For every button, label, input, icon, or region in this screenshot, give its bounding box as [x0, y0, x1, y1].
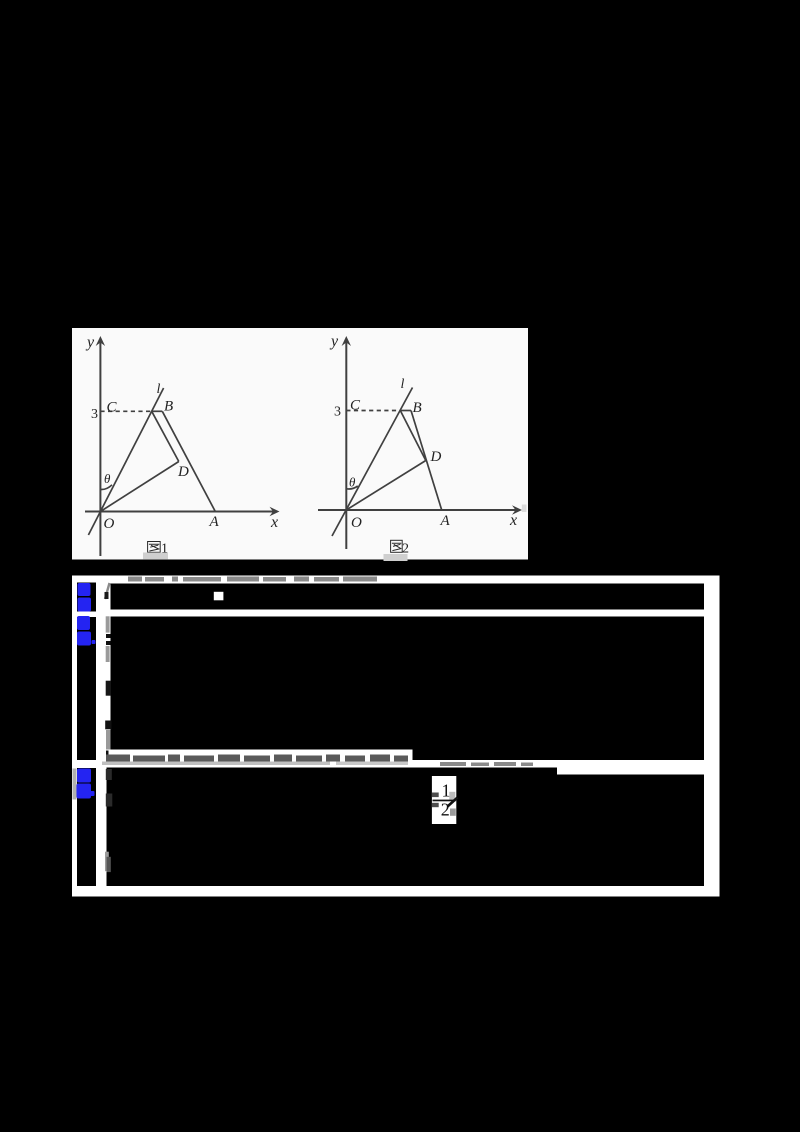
fraction bar [433, 800, 456, 802]
fraction gray squares [449, 792, 455, 800]
svg-text:θ: θ [349, 475, 356, 490]
row3 left cell black [77, 768, 96, 886]
row3 main cell black [107, 768, 705, 887]
row3 left edge fragments [105, 769, 112, 872]
svg-text:y: y [329, 333, 339, 350]
row2 bottom white strip under redaction [109, 750, 413, 761]
angle arc fig1 [101, 485, 112, 490]
line l fig1 [88, 388, 163, 535]
x-axis fig1 [85, 511, 277, 513]
svg-text:l: l [401, 377, 405, 392]
segment B'-A fig1 [162, 411, 215, 511]
svg-text:1: 1 [442, 781, 451, 801]
fraction box [432, 776, 456, 824]
gray smudge under caption fig2 [384, 554, 408, 561]
gray dashes in separator band right part [440, 762, 533, 766]
y-axis fig2 [345, 340, 347, 549]
fraction equals fragments [432, 793, 439, 798]
row2 bottom truncated text line [106, 755, 408, 762]
left border gray tint beside row3 glyphs [73, 769, 77, 800]
svg-text:3: 3 [91, 407, 98, 422]
svg-text:θ: θ [104, 471, 111, 486]
x-axis fig2 [318, 509, 519, 511]
x-axis arrowhead fig1 [270, 507, 280, 516]
segment O-D fig1 [100, 462, 178, 512]
y-axis fig1 [99, 340, 101, 556]
segment B-D fig2 [400, 411, 426, 461]
row2 left edge fragments [105, 616, 111, 759]
blue glyphs row1 [78, 583, 92, 612]
row1 main cell black [111, 584, 705, 610]
table white frame [72, 576, 720, 897]
svg-text:O: O [351, 515, 362, 531]
gray smudge under caption fig1 [143, 553, 168, 560]
y-axis arrowhead fig2 [342, 336, 351, 346]
row1 white square [214, 592, 224, 601]
line l fig2 [332, 388, 413, 537]
svg-text:A: A [440, 513, 451, 529]
svg-text:D: D [430, 449, 442, 465]
svg-text:C: C [350, 398, 361, 414]
row1 left cell black [77, 583, 96, 612]
row1 fragment mark [105, 583, 110, 599]
svg-text:x: x [509, 512, 517, 529]
angle arc fig2 [347, 486, 358, 489]
segment B'-A fig2 [411, 411, 442, 511]
segment B-B' fig1 [152, 410, 163, 412]
svg-text:x: x [270, 514, 278, 531]
blue glyphs row3 [77, 769, 95, 799]
svg-text:2: 2 [441, 800, 450, 820]
svg-text:B: B [413, 400, 422, 416]
svg-text:y: y [85, 334, 95, 351]
dashed C-B fig1 [100, 410, 151, 412]
faint gray underline strip of truncated line [102, 762, 330, 766]
svg-text:O: O [104, 516, 115, 532]
caption tu2 glyph [391, 540, 403, 552]
segment B-B' fig2 [400, 410, 411, 412]
white notch right of row2/3 separator [557, 767, 704, 775]
segment B-D fig1 [152, 411, 179, 461]
svg-text:B: B [164, 399, 173, 415]
row2 main cell black [111, 617, 705, 761]
fraction slash [448, 798, 458, 807]
svg-text:C: C [107, 400, 118, 416]
x-axis arrowhead fig2 [512, 505, 522, 514]
segment O-D fig2 [346, 461, 426, 511]
row1 top gray character tips [128, 577, 377, 582]
svg-text:l: l [157, 382, 161, 397]
dashed C-B fig2 [346, 410, 400, 412]
svg-text:D: D [177, 464, 189, 480]
white figure panel [72, 328, 528, 560]
row2 left cell black [77, 617, 96, 760]
caption tu1 glyph [148, 542, 161, 553]
small gray patch near fig2 x-arrow [522, 505, 527, 513]
svg-text:A: A [209, 514, 220, 530]
blue glyphs row2 [77, 616, 96, 646]
svg-text:3: 3 [334, 405, 341, 420]
y-axis arrowhead fig1 [96, 336, 105, 346]
